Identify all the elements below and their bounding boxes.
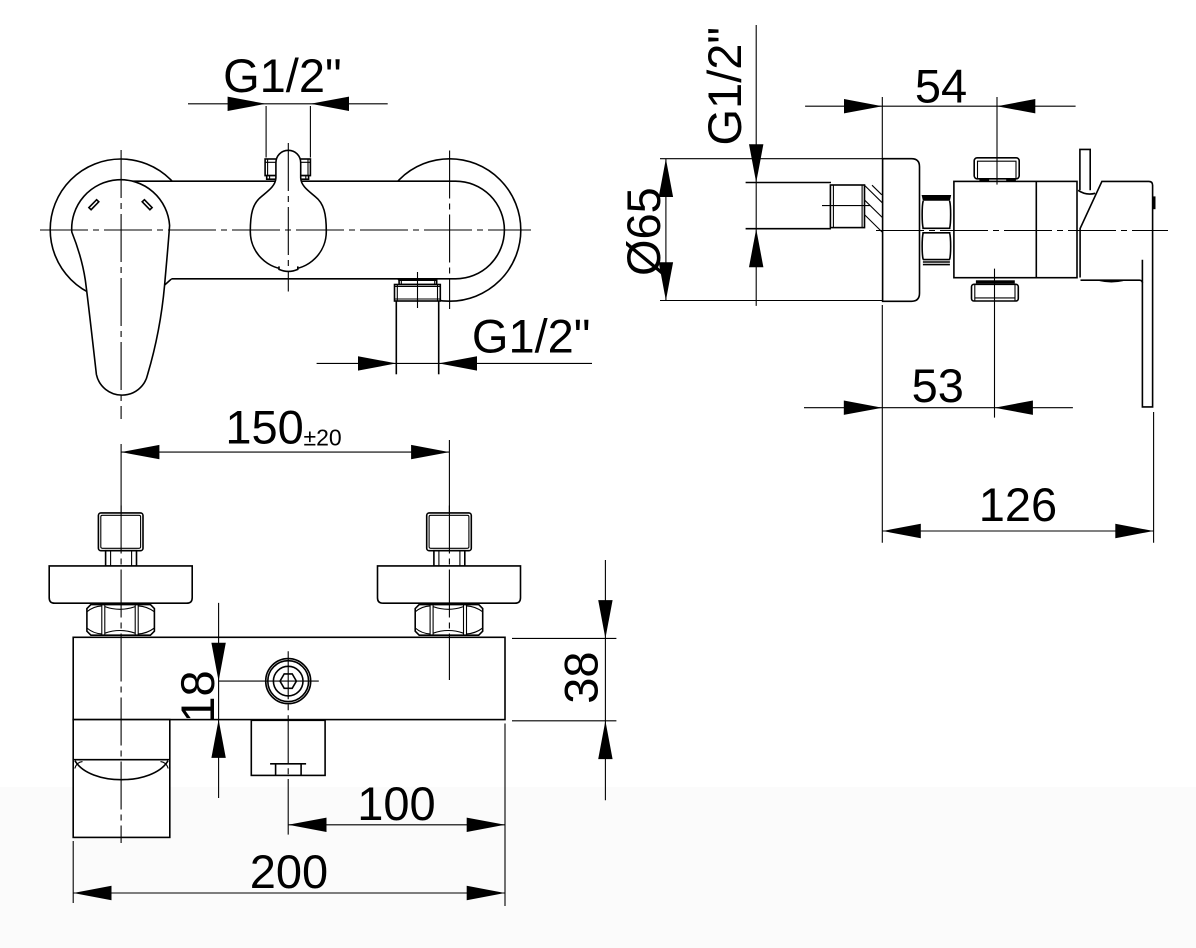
dimension 100: left arrow (288, 818, 326, 832)
bottom-right connection nut lip (399, 280, 437, 284)
dimension 200: extension line left (72, 841, 74, 903)
svg-text:38: 38 (555, 651, 608, 703)
outlet block (251, 720, 325, 775)
dimension D65: dimension line (665, 159, 667, 301)
svg-text:54: 54 (915, 60, 967, 113)
bottom nut side lip (976, 280, 1015, 283)
centerline left mount (120, 506, 122, 844)
right escutcheon plate (378, 566, 521, 603)
dimension 53: extension line left (881, 305, 883, 543)
faucet body capsule outline (126, 181, 504, 279)
dimension 53: dimension line (804, 407, 1073, 409)
svg-text:200: 200 (250, 845, 328, 898)
bottom nut side (972, 284, 1019, 301)
svg-text:G1/2": G1/2" (698, 27, 751, 146)
left hex nut (87, 605, 154, 636)
svg-text:Ø65: Ø65 (617, 187, 670, 276)
svg-text:G1/2": G1/2" (472, 310, 591, 363)
dimension 38: upper arrow (598, 600, 612, 638)
mounting screw circles (266, 659, 311, 704)
handle stem rod (1080, 149, 1090, 191)
dimension 200: right arrow (467, 886, 505, 900)
left mount cap nut (98, 513, 143, 551)
screw hex socket (280, 674, 296, 688)
dimension 54: right arrow (997, 99, 1035, 113)
wall plate side (883, 159, 920, 302)
dimension G1/2 top: extension lines (266, 106, 310, 158)
svg-text:±20: ±20 (304, 425, 342, 451)
left escutcheon circle (50, 159, 191, 300)
dimension 38: lower arrow (598, 721, 612, 759)
extension line outlet center (287, 779, 289, 835)
light gray lower band (0, 787, 1196, 948)
bottom nut far side arc (1100, 280, 1123, 281)
dimension G1/2 bottom: left arrow (358, 356, 396, 370)
svg-text:150: 150 (225, 400, 303, 453)
valve body divider line (1035, 181, 1037, 277)
right escutcheon circle (378, 159, 520, 301)
dimension G1/2 bottom: dimension line (317, 362, 592, 364)
dimension 150: extension lines (121, 440, 449, 512)
svg-text:126: 126 (979, 478, 1057, 531)
left escutcheon plate (49, 566, 192, 603)
dimension G1/2 side: bottom arrow (749, 229, 763, 267)
dimension 18: lower arrow (211, 720, 225, 758)
top nut centerline (996, 97, 998, 185)
centerline right mount (448, 506, 450, 681)
centerline screw vertical (287, 651, 289, 779)
bottom-right pipe walls (396, 301, 438, 374)
dimension 150: right arrow (411, 445, 449, 459)
dimension 150: left arrow (121, 445, 159, 459)
dimension 126: left arrow (883, 524, 921, 538)
handle pin detail (1153, 196, 1156, 209)
dimension 54: extension line left (881, 97, 883, 159)
locking hex nut side (922, 195, 952, 265)
dimension 200: dimension line (73, 892, 505, 894)
dimension G1/2 top: dimension line (188, 103, 388, 105)
dimension 38: extension lines (512, 638, 616, 720)
dimension 54: left arrow (844, 99, 882, 113)
faucet body capsule fill (110, 181, 504, 279)
inlet pipe walls (746, 183, 831, 229)
left mount stem (106, 551, 137, 566)
dimension 53: left arrow (844, 401, 883, 415)
lever end block (73, 720, 170, 838)
inlet pipe centerline (822, 205, 872, 207)
dimension 100: right arrow (467, 818, 505, 832)
svg-text:100: 100 (357, 777, 435, 830)
handle stem base curve (1078, 190, 1095, 194)
dimension 200: left arrow (73, 886, 111, 900)
dimension 18: dimension line (218, 603, 220, 798)
side view horizontal centerline (876, 230, 1168, 232)
outlet aerator tab (279, 267, 298, 271)
dimension G1/2 top: left arrow (228, 97, 266, 111)
dimension G1/2 side: top arrow (749, 144, 763, 182)
right mount stem (434, 551, 465, 566)
dimension 126: extension line right (1153, 412, 1155, 543)
centerline screw horizontal (219, 680, 319, 682)
top nut side (974, 158, 1019, 182)
dimension 150: dimension line (121, 451, 449, 453)
bottom nut centerline (994, 269, 996, 418)
dimension 53: right arrow (995, 401, 1033, 415)
dimension D65: extension lines (660, 159, 885, 301)
vertical centerline right escutcheon (449, 151, 451, 310)
dimension 126: dimension line (883, 530, 1154, 532)
top connector washer (267, 176, 309, 180)
vertical centerline ball (287, 143, 289, 292)
thread hatching (865, 185, 883, 232)
handle tick mark left (89, 200, 99, 210)
svg-text:53: 53 (912, 359, 964, 412)
dimension 18: upper arrow (211, 643, 225, 681)
dimension 100: dimension line (288, 824, 505, 826)
lever handle (72, 180, 170, 395)
dimension D65: top arrow (659, 159, 673, 197)
svg-text:G1/2": G1/2" (223, 49, 342, 102)
dimension D65: bottom arrow (659, 262, 673, 300)
top connector nut (265, 159, 310, 176)
vertical centerline bottom-right pipe (417, 272, 419, 308)
vertical centerline left escutcheon (120, 150, 122, 419)
bottom-right connection nut (395, 285, 441, 302)
thread block (830, 185, 864, 228)
dimension G1/2 bottom: right arrow (439, 356, 477, 370)
right hex nut (415, 605, 483, 636)
handle head and grip (1080, 181, 1153, 407)
svg-text:18: 18 (171, 670, 224, 722)
handle tick mark right (142, 200, 152, 210)
body bar bottom view (73, 637, 505, 719)
valve body side (954, 181, 1077, 277)
dimension 54: dimension line (805, 105, 1076, 107)
cartridge ball and neck (250, 150, 326, 269)
dimension G1/2 side: dimension line (755, 25, 757, 306)
dimension 126: right arrow (1115, 524, 1153, 538)
dimension G1/2 top: right arrow (311, 97, 349, 111)
dimension 100: extension line right (504, 724, 506, 907)
right mount cap nut (427, 513, 472, 551)
dimension 38: dimension line (604, 560, 606, 800)
horizontal centerline front view (40, 229, 531, 231)
